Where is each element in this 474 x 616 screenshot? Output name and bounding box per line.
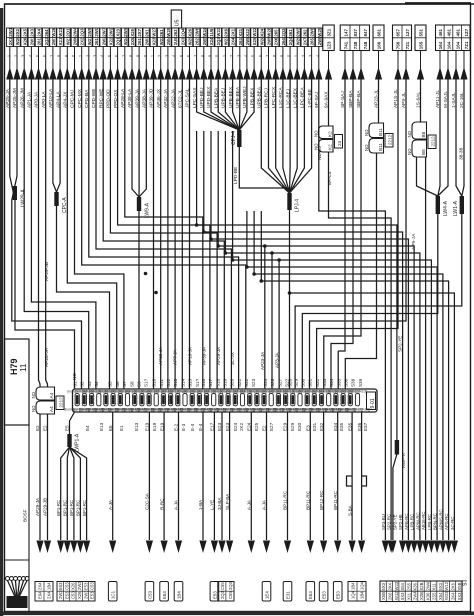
svg-text:7Z1: 7Z1 — [464, 41, 469, 49]
svg-text:S3: S3 — [87, 381, 92, 387]
svg-text:E30: E30 — [297, 422, 302, 431]
svg-text:LW1-A: LW1-A — [453, 200, 459, 216]
svg-text:E19: E19 — [145, 422, 150, 431]
svg-text:S1?: S1? — [144, 378, 149, 387]
svg-text:AP29-JA: AP29-JA — [216, 346, 221, 365]
wire r0 below K to bottom bundle b1 — [329, 152, 392, 540]
svg-text:S5: S5 — [108, 381, 113, 387]
svg-text:AP39-JA: AP39-JA — [201, 346, 206, 365]
svg-text:2K2: 2K2 — [239, 422, 244, 431]
svg-text:S31: S31 — [308, 378, 313, 387]
svg-text:E31: E31 — [312, 422, 317, 431]
svg-text:E53: E53 — [83, 582, 88, 590]
svg-text:E29: E29 — [283, 422, 288, 431]
svg-text:263: 263 — [173, 29, 178, 37]
connector box 756/721 — [393, 25, 412, 51]
splice LPJ-4 — [287, 193, 291, 210]
svg-text:S3: S3 — [463, 580, 469, 586]
svg-text:261: 261 — [94, 38, 99, 46]
svg-text:S1?: S1? — [195, 378, 200, 387]
wire below ECU at x=178.5 — [178, 412, 180, 540]
svg-text:NO: NO — [31, 405, 36, 412]
svg-text:E37: E37 — [363, 422, 368, 431]
svg-text:9-01: 9-01 — [370, 398, 376, 408]
bottom box group 6-col — [57, 581, 95, 601]
box 1B4a — [174, 582, 183, 602]
splice LW4-A — [436, 196, 440, 214]
svg-text:A4: A4 — [49, 406, 54, 412]
svg-text:E23: E23 — [225, 422, 230, 431]
svg-text:E2: E2 — [35, 425, 40, 431]
wire from ECU down into splice LWP1-A — [70, 412, 75, 434]
connector box 164 group — [436, 25, 471, 51]
svg-text:2X4: 2X4 — [37, 582, 42, 590]
svg-text:AP29-JB: AP29-JB — [43, 498, 48, 516]
svg-text:SP2-HE: SP2-HE — [398, 514, 403, 530]
svg-text:BPN-RC: BPN-RC — [433, 513, 438, 530]
wire r10 into splice LW1-A — [456, 79, 462, 196]
svg-text:E24: E24 — [233, 422, 238, 431]
svg-text:X26: X26 — [188, 28, 193, 36]
wire i17 into splice LW9-A — [132, 79, 139, 197]
svg-text:2W0: 2W0 — [94, 27, 99, 36]
svg-text:S35: S35 — [336, 378, 341, 387]
svg-text:E-3: E-3 — [181, 423, 186, 431]
svg-text:E29: E29 — [290, 422, 295, 431]
wire below ECU at x=164.1 — [163, 412, 165, 540]
svg-text:S6: S6 — [115, 381, 120, 387]
wire i25 direct to ECU — [189, 79, 191, 389]
svg-text:W23: W23 — [444, 591, 449, 600]
svg-text:A4: A4 — [49, 392, 54, 398]
svg-text:NO: NO — [72, 373, 77, 380]
svg-text:1Q4: 1Q4 — [350, 590, 355, 599]
svg-text:E36: E36 — [357, 422, 362, 431]
wire r4 into component B11 — [378, 79, 380, 123]
top arrow row (in-arrows) — [6, 47, 467, 80]
svg-text:APWS-RC: APWS-RC — [438, 509, 443, 530]
svg-text:AP7-JA: AP7-JA — [172, 348, 177, 365]
svg-text:E1: E1 — [119, 425, 124, 431]
svg-text:2X3: 2X3 — [29, 28, 34, 36]
svg-text:E13: E13 — [99, 422, 104, 431]
svg-text:2S5: 2S5 — [406, 582, 411, 590]
wire i15 staircase to ECU — [118, 79, 210, 389]
svg-text:2212: 2212 — [58, 397, 63, 408]
splice LW29-A — [13, 186, 17, 200]
svg-text:E13: E13 — [134, 422, 139, 431]
labels above ECU middle entries — [158, 346, 235, 365]
svg-text:265: 265 — [310, 38, 315, 46]
svg-text:AP3-JA: AP3-JA — [274, 351, 279, 368]
bottom-right grid connector S3 — [380, 580, 469, 602]
svg-text:3Z1: 3Z1 — [327, 28, 332, 36]
svg-text:BP11-RC: BP11-RC — [306, 490, 311, 510]
component B11 — [364, 123, 393, 153]
svg-text:BP11-RC: BP11-RC — [333, 490, 338, 510]
wire B11 output to ECU (innermost nest) — [345, 153, 376, 389]
svg-text:K36: K36 — [425, 592, 430, 600]
svg-text:1Z3: 1Z3 — [327, 41, 332, 49]
svg-text:2W8: 2W8 — [310, 27, 315, 36]
svg-text:X22: X22 — [109, 37, 114, 45]
svg-text:2X2: 2X2 — [15, 28, 20, 36]
svg-text:X23: X23 — [152, 37, 157, 45]
splice CPJ-4 output, label LPD-BE — [239, 147, 289, 193]
svg-text:S21: S21 — [237, 378, 242, 387]
svg-text:W21: W21 — [58, 27, 63, 36]
svg-text:8A-C4: 8A-C4 — [327, 171, 333, 185]
svg-text:1Q4: 1Q4 — [359, 581, 364, 590]
svg-text:847: 847 — [363, 28, 368, 36]
twisted pair wires S-BA below ECU — [351, 412, 353, 540]
svg-text:E-2: E-2 — [174, 423, 179, 431]
svg-text:C2C-SA: C2C-SA — [145, 492, 150, 510]
svg-text:BP1-RC: BP1-RC — [56, 500, 61, 516]
connector box 155 — [415, 25, 426, 51]
svg-text:2W3: 2W3 — [58, 590, 63, 599]
connector box 166 — [373, 25, 384, 51]
ECU bottom pin labels E.. — [35, 422, 368, 431]
svg-text:164: 164 — [455, 41, 460, 49]
svg-text:X2B: X2B — [419, 592, 424, 600]
svg-text:E53: E53 — [162, 591, 167, 599]
svg-text:S39: S39 — [358, 378, 363, 387]
svg-text:AP28-JA: AP28-JA — [44, 347, 50, 367]
svg-text:2Q1: 2Q1 — [116, 37, 121, 46]
ECU connector block U1 — [64, 389, 377, 412]
svg-text:E32: E32 — [319, 422, 324, 431]
svg-text:2W5: 2W5 — [123, 27, 128, 36]
svg-text:LW29-A: LW29-A — [21, 189, 27, 207]
wire i10 staircase to ECU — [82, 79, 246, 389]
splice LW9-A — [137, 197, 141, 211]
bottom bundle wire labels — [381, 509, 455, 530]
svg-text:X25: X25 — [252, 37, 257, 45]
svg-text:261: 261 — [159, 29, 164, 37]
wire r6 (pair) to ECU — [310, 79, 407, 389]
svg-text:X25: X25 — [130, 28, 135, 36]
svg-text:X21: X21 — [58, 37, 63, 45]
wire below ECU at x=287.5 — [287, 412, 289, 540]
wire r1 (triple) to ECU — [338, 79, 345, 389]
wire i11 staircase to ECU — [89, 79, 239, 389]
wire B8 output2 to bundle b7 — [425, 157, 427, 540]
svg-text:2K6: 2K6 — [388, 592, 393, 600]
svg-text:2Q3: 2Q3 — [228, 581, 233, 590]
svg-text:2W6: 2W6 — [195, 27, 200, 36]
svg-text:W27: W27 — [152, 27, 157, 36]
fan into splice CPJ-4 (wires i26..i34) — [197, 79, 255, 130]
connector box 1Z3 — [323, 25, 334, 51]
svg-text:2X4: 2X4 — [46, 591, 51, 599]
svg-text:AP10-JA: AP10-JA — [188, 346, 193, 365]
svg-text:BP12-RC: BP12-RC — [319, 490, 324, 510]
box E53e — [333, 582, 342, 602]
wire r2 (triple) to ECU — [331, 79, 353, 389]
wire i8 to ECU S6 — [67, 79, 116, 389]
svg-text:E25: E25 — [254, 422, 259, 431]
svg-text:461: 461 — [438, 28, 443, 36]
svg-text:E53: E53 — [58, 582, 63, 590]
wire below ECU at x=266.5 — [266, 412, 268, 540]
splice LW1-A — [460, 196, 464, 214]
wire below ECU at x=310.3 — [309, 412, 311, 540]
svg-text:E2: E2 — [262, 425, 267, 431]
svg-text:E35: E35 — [347, 422, 352, 431]
svg-text:X54: X54 — [400, 582, 405, 590]
svg-text:X24: X24 — [259, 28, 264, 36]
junction dots left — [144, 272, 158, 295]
svg-text:W26: W26 — [51, 27, 56, 36]
svg-text:2Q2: 2Q2 — [281, 28, 286, 37]
svg-text:738: 738 — [353, 41, 358, 49]
svg-text:2W1: 2W1 — [8, 27, 13, 36]
wire i18 into splice LW9-A — [138, 79, 140, 197]
svg-text:657: 657 — [395, 28, 400, 36]
svg-text:W12: W12 — [394, 591, 399, 600]
svg-text:1E4: 1E4 — [264, 591, 269, 599]
svg-text:264: 264 — [281, 38, 286, 46]
wire below ECU at x=214.4 — [213, 412, 215, 540]
svg-text:X21: X21 — [238, 28, 243, 36]
svg-text:S32: S32 — [315, 378, 320, 387]
svg-text:X23: X23 — [116, 28, 121, 36]
splice AWP-A on bundle wire b2 — [395, 440, 399, 455]
svg-text:K2: K2 — [328, 144, 333, 150]
svg-text:E19: E19 — [152, 422, 157, 431]
svg-text:C53: C53 — [147, 590, 152, 599]
pin numbers under strip — [6, 54, 320, 57]
svg-text:2X5: 2X5 — [130, 37, 135, 45]
wire i2 to ECU S3 — [24, 79, 89, 389]
svg-text:837: 837 — [353, 28, 358, 36]
svg-text:E35: E35 — [339, 422, 344, 431]
svg-text:AP29-JA: AP29-JA — [35, 497, 40, 516]
svg-text:S10: S10 — [152, 378, 157, 387]
svg-text:1U5: 1U5 — [209, 28, 214, 36]
svg-text:2Q3: 2Q3 — [220, 590, 225, 599]
svg-text:E5: E5 — [65, 425, 70, 431]
wire i3 to ECU S4 — [31, 79, 96, 389]
svg-text:X22: X22 — [245, 28, 250, 36]
svg-text:2W3: 2W3 — [83, 590, 88, 599]
svg-text:K2: K2 — [328, 131, 333, 137]
svg-text:B11: B11 — [378, 143, 383, 151]
wire below ECU at x=251.3 — [250, 412, 252, 540]
svg-text:X24: X24 — [209, 37, 214, 45]
svg-text:E3: E3 — [306, 425, 311, 431]
svg-text:AP29-JB: AP29-JB — [44, 262, 50, 281]
svg-text:2W4: 2W4 — [425, 581, 430, 590]
svg-text:756: 756 — [395, 41, 400, 49]
svg-text:11: 11 — [19, 363, 28, 372]
svg-text:3C-RC: 3C-RC — [450, 517, 455, 530]
svg-text:S26: S26 — [270, 378, 275, 387]
svg-text:SP2-YE: SP2-YE — [398, 336, 403, 352]
svg-text:2X7: 2X7 — [137, 28, 142, 36]
svg-text:S20: S20 — [230, 378, 235, 387]
svg-text:5X3: 5X3 — [400, 592, 405, 600]
svg-text:2Q1: 2Q1 — [65, 28, 70, 37]
wire below ECU at x=229.6 — [229, 412, 231, 540]
svg-text:551: 551 — [419, 28, 424, 36]
wire A4 out1 to arrow AP29-JA — [39, 414, 41, 540]
svg-text:262: 262 — [302, 29, 307, 37]
svg-text:S11: S11 — [159, 379, 164, 387]
svg-text:164: 164 — [447, 41, 452, 49]
splice CPC-A — [54, 192, 58, 206]
wire i7 into splice CPC-A — [57, 79, 61, 192]
svg-text:S17: S17 — [208, 378, 213, 387]
svg-text:E17: E17 — [210, 422, 215, 431]
svg-text:X11: X11 — [432, 583, 437, 591]
svg-text:NO: NO — [364, 144, 369, 151]
svg-text:2X1: 2X1 — [231, 28, 236, 36]
svg-text:E94: E94 — [37, 591, 42, 599]
svg-text:X26: X26 — [77, 591, 82, 599]
svg-text:721: 721 — [405, 41, 410, 49]
svg-text:5X3: 5X3 — [381, 582, 386, 590]
svg-text:AB16-RC: AB16-RC — [421, 511, 426, 530]
wire below ECU at x=222.0 — [221, 412, 223, 540]
wire i5 to component A4 pin2 (labels AP29-JB / AP28-JA) — [46, 79, 48, 387]
box E53a — [160, 582, 169, 602]
svg-text:S7: S7 — [122, 381, 127, 387]
svg-text:SP3-BU: SP3-BU — [381, 514, 386, 530]
svg-text:1B4: 1B4 — [359, 591, 364, 599]
svg-text:S24: S24 — [263, 378, 268, 387]
splice LW9-A output to ECU — [138, 211, 140, 389]
svg-text:147: 147 — [343, 28, 348, 36]
svg-text:AP9-JA: AP9-JA — [411, 233, 417, 250]
svg-text:W25: W25 — [166, 27, 171, 36]
svg-text:C53: C53 — [90, 582, 95, 590]
svg-text:AP23-JA: AP23-JA — [260, 351, 265, 370]
svg-text:2212: 2212 — [387, 134, 392, 145]
wire name labels (top) — [5, 86, 465, 108]
svg-text:W22: W22 — [252, 27, 257, 36]
svg-text:2S5: 2S5 — [432, 592, 437, 600]
svg-text:SLP-BA: SLP-BA — [225, 493, 230, 510]
svg-text:E23: E23 — [217, 422, 222, 431]
svg-text:NO: NO — [364, 129, 369, 136]
wire r7 into component B8 — [420, 79, 422, 122]
svg-text:2212: 2212 — [430, 136, 435, 147]
svg-text:LPD-BE: LPD-BE — [233, 167, 239, 184]
svg-text:S34: S34 — [329, 378, 334, 387]
svg-text:2W3: 2W3 — [295, 27, 300, 36]
svg-text:S18: S18 — [215, 378, 220, 387]
svg-text:2X6: 2X6 — [223, 28, 228, 36]
svg-text:W12: W12 — [444, 581, 449, 590]
svg-text:LW9-A: LW9-A — [145, 202, 151, 218]
component A4 — [31, 387, 64, 414]
svg-text:261: 261 — [37, 38, 42, 46]
svg-text:2K4: 2K4 — [388, 582, 393, 590]
wire r9 into splice LW4-A — [438, 79, 448, 196]
wire i19 into splice LW9-A — [139, 79, 146, 197]
svg-text:2Q2: 2Q2 — [44, 37, 49, 46]
svg-text:2X7: 2X7 — [302, 37, 307, 45]
svg-text:W23: W23 — [394, 581, 399, 590]
svg-text:2W2: 2W2 — [109, 27, 114, 36]
wire i22 direct to ECU — [167, 79, 169, 389]
svg-text:S29: S29 — [293, 378, 298, 387]
svg-text:S4: S4 — [94, 381, 99, 387]
svg-text:2W9: 2W9 — [87, 27, 92, 36]
svg-text:B11: B11 — [378, 128, 383, 136]
svg-text:S15: S15 — [188, 378, 193, 387]
wire below ECU at x=337.7 — [337, 412, 339, 540]
svg-text:E5: E5 — [108, 425, 113, 431]
wire i21 direct to ECU — [160, 79, 162, 389]
svg-text:261: 261 — [144, 29, 149, 37]
svg-text:E53: E53 — [308, 591, 313, 599]
svg-text:1B4: 1B4 — [176, 591, 181, 599]
svg-text:E53: E53 — [64, 591, 69, 599]
svg-text:X2B: X2B — [419, 582, 424, 590]
svg-text:S2: S2 — [80, 381, 85, 387]
splice LPJ-4 output down into ECU S25 — [289, 210, 291, 389]
splice CPC-A output to ECU S5 — [57, 206, 110, 389]
svg-text:A-JA: A-JA — [262, 499, 267, 510]
connector strip bank (top, 44 cells, 2 rows) — [7, 27, 323, 46]
svg-text:BP1-RC: BP1-RC — [82, 500, 87, 516]
branch from LPJ-4 output to bottom-right bundle — [290, 293, 455, 540]
box C53 — [145, 582, 154, 602]
svg-text:LPJ-4: LPJ-4 — [295, 199, 301, 212]
svg-text:A-JA: A-JA — [174, 499, 179, 510]
svg-text:2W4: 2W4 — [73, 27, 78, 36]
svg-text:E-4: E-4 — [198, 423, 203, 431]
svg-text:1C1: 1C1 — [111, 590, 116, 599]
splice LWP1-A fan out 5 wires — [56, 447, 87, 540]
svg-text:E-4: E-4 — [190, 423, 195, 431]
svg-text:AP30-JA: AP30-JA — [158, 346, 163, 365]
svg-text:C53: C53 — [64, 582, 69, 590]
svg-text:2X4: 2X4 — [231, 37, 236, 45]
svg-text:U5: U5 — [175, 19, 181, 26]
svg-text:E53: E53 — [212, 591, 217, 599]
svg-text:2X4: 2X4 — [37, 28, 42, 36]
component K (on wire r0) — [314, 126, 343, 152]
wire i6 into splice CPC-A — [53, 79, 57, 192]
svg-text:S1: S1 — [73, 381, 78, 387]
wire i16 staircase to ECU — [125, 79, 203, 389]
svg-text:A-JA: A-JA — [247, 499, 252, 510]
svg-text:2Q3: 2Q3 — [216, 37, 221, 46]
svg-text:CPJ-4: CPJ-4 — [231, 131, 237, 145]
fan into splice LPJ-4 (wires i35..i42) — [261, 79, 311, 193]
svg-text:2K6: 2K6 — [451, 582, 456, 590]
svg-text:S22: S22 — [244, 378, 249, 387]
svg-text:263: 263 — [238, 38, 243, 46]
svg-text:127: 127 — [405, 28, 410, 36]
svg-text:2X3: 2X3 — [180, 37, 185, 45]
box E53c — [306, 582, 315, 602]
wire i9 to ECU S7 — [75, 79, 124, 389]
svg-text:S12: S12 — [166, 378, 171, 387]
wire below ECU at x=112.7 — [112, 412, 114, 540]
svg-text:155: 155 — [419, 41, 424, 49]
wire i24 direct to ECU — [181, 79, 183, 389]
wire i43 (ND-25) right of ECU to bottom bundle — [319, 79, 386, 540]
svg-text:2Q3: 2Q3 — [80, 28, 85, 37]
svg-text:B8: B8 — [421, 131, 426, 137]
branch wires center to bottom bundle — [195, 131, 449, 540]
wire r0 from box 1Z3 down to component K — [328, 79, 330, 126]
